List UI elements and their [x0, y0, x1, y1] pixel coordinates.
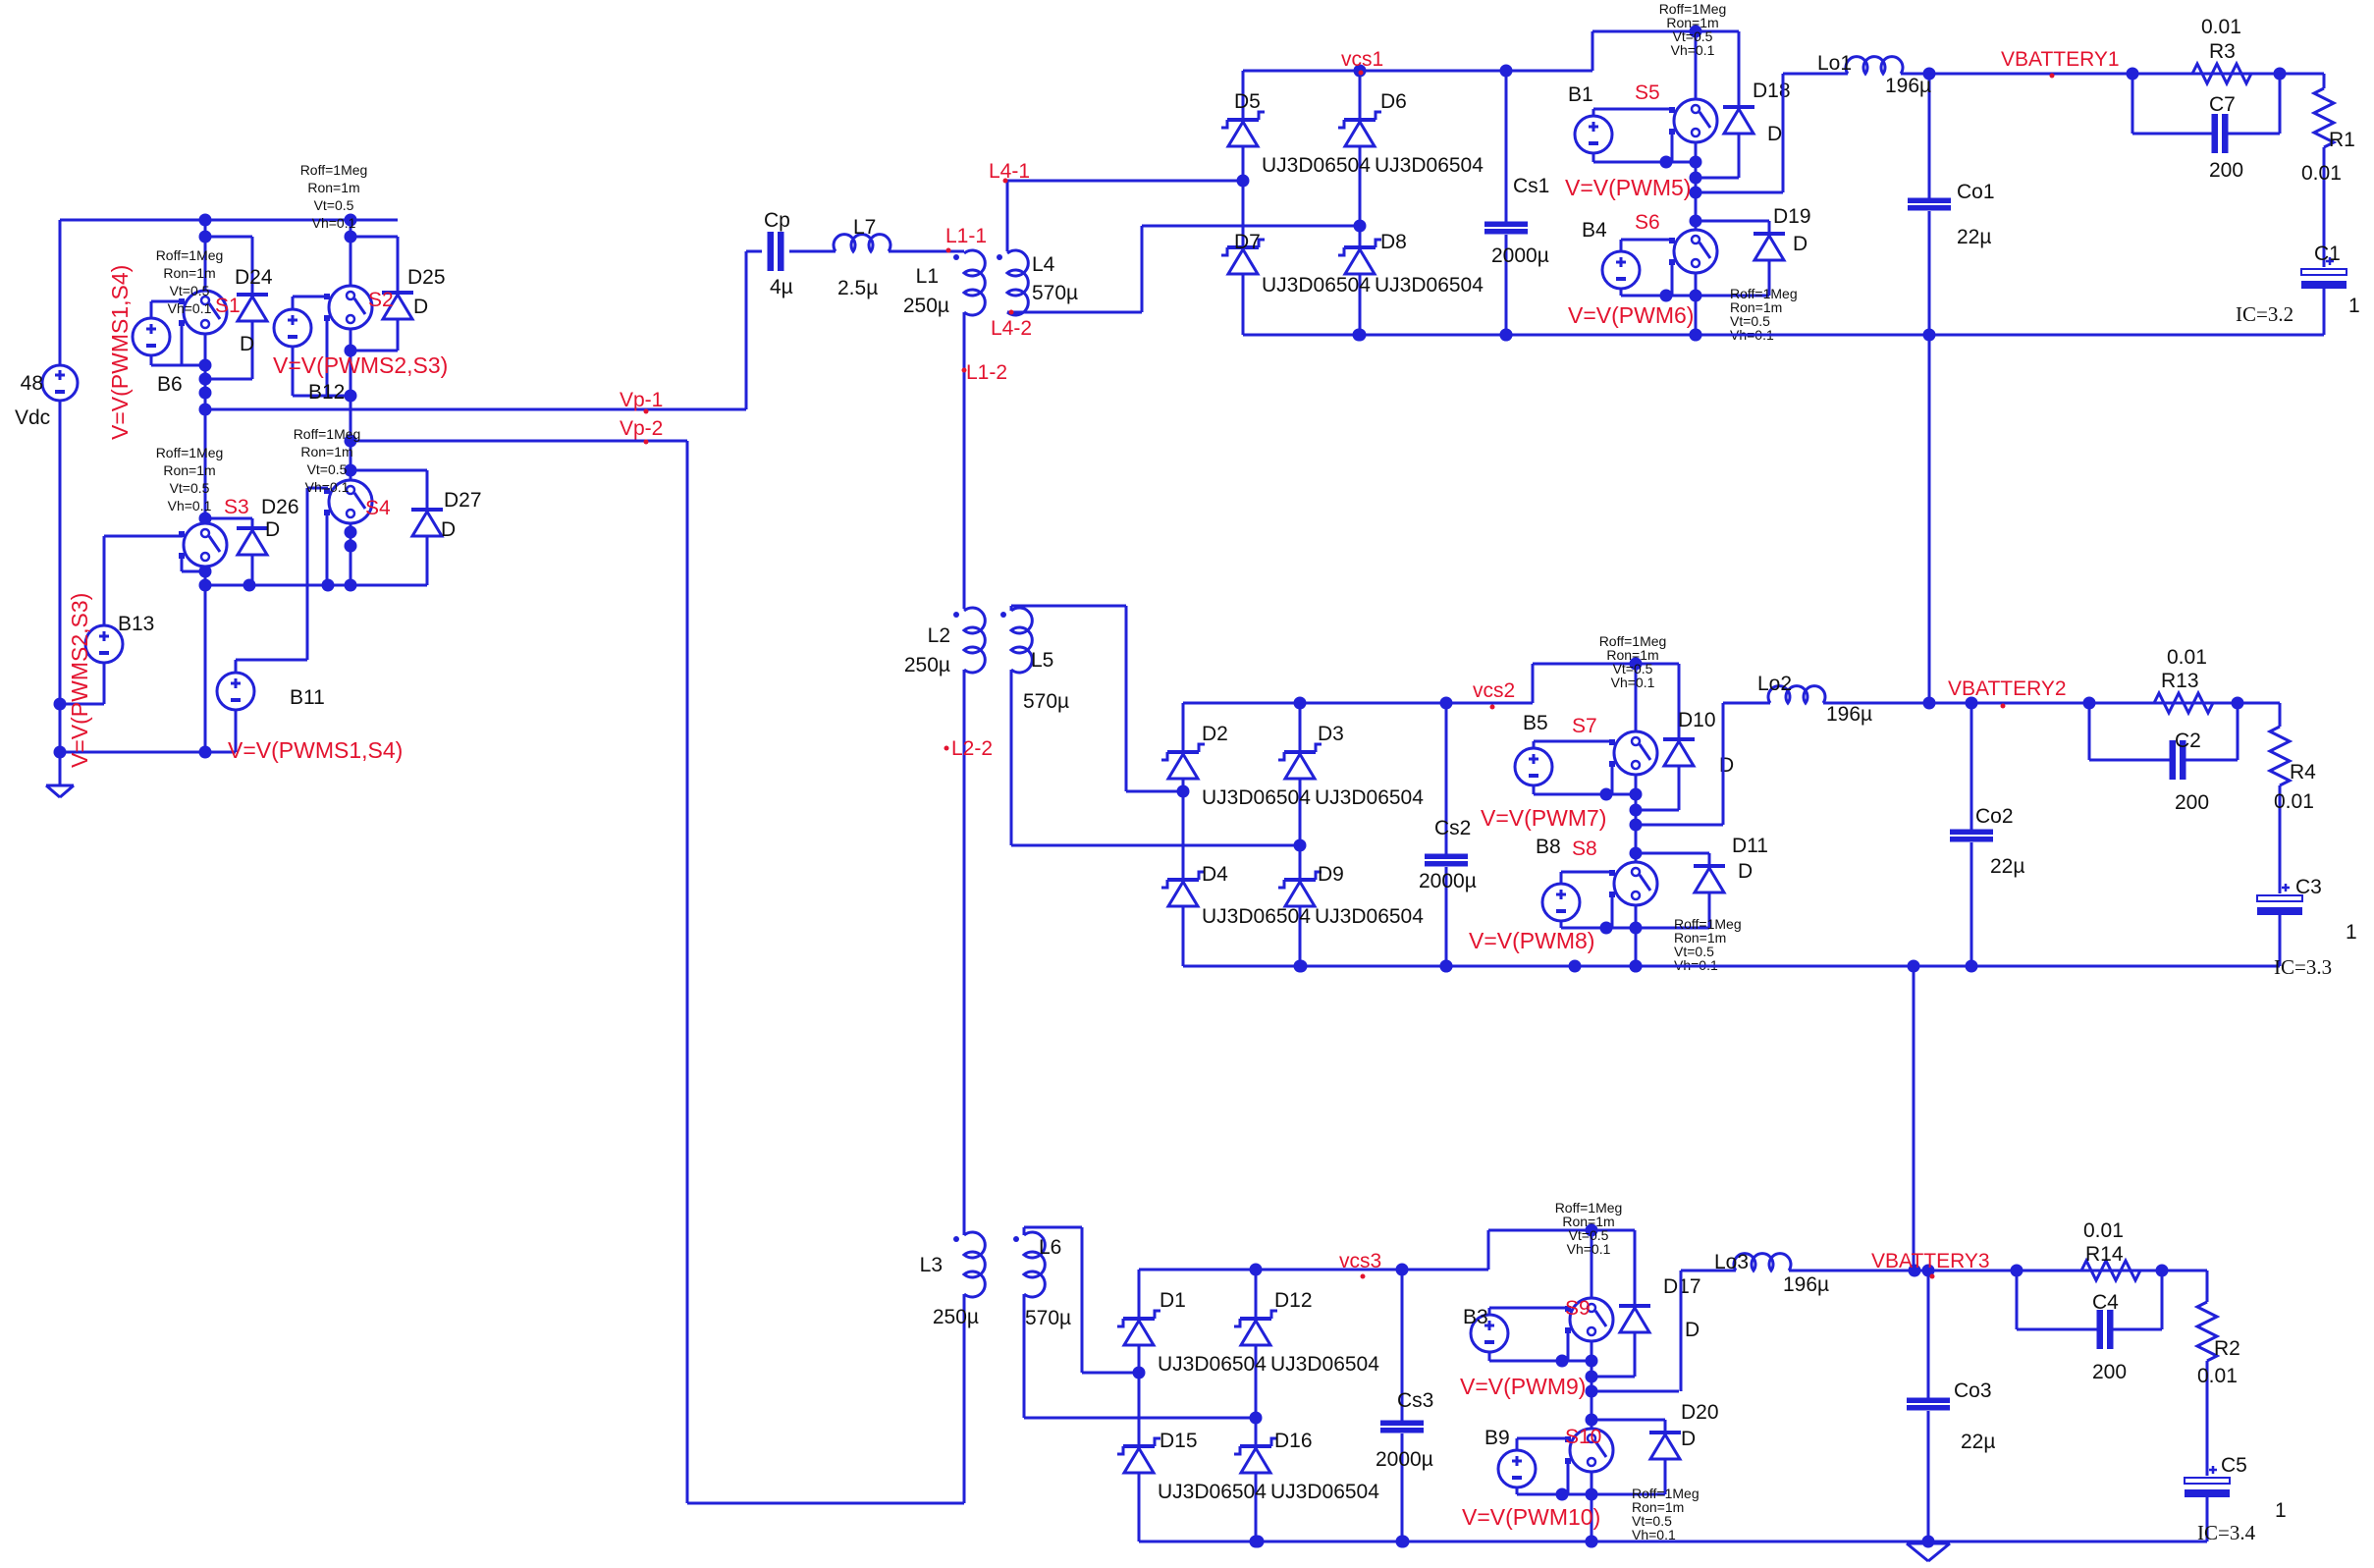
svg-text:D: D — [1719, 754, 1734, 777]
svg-text:2000µ: 2000µ — [1376, 1448, 1433, 1471]
svg-text:S6: S6 — [1635, 211, 1660, 234]
svg-text:0.01: 0.01 — [2197, 1365, 2238, 1387]
svg-text:Vdc: Vdc — [15, 406, 50, 429]
svg-text:Vh=0.1: Vh=0.1 — [312, 215, 356, 231]
svg-text:200: 200 — [2175, 791, 2209, 814]
svg-text:Vt=0.5: Vt=0.5 — [307, 461, 348, 477]
svg-text:C2: C2 — [2175, 730, 2201, 752]
svg-text:C3: C3 — [2295, 876, 2322, 898]
svg-text:R14: R14 — [2085, 1243, 2124, 1266]
svg-text:B9: B9 — [1484, 1427, 1510, 1449]
svg-text:B12: B12 — [308, 381, 345, 404]
svg-text:22µ: 22µ — [1961, 1431, 1995, 1453]
svg-text:200: 200 — [2092, 1361, 2127, 1383]
svg-text:IC=3.4: IC=3.4 — [2197, 1521, 2256, 1544]
svg-text:Vt=0.5: Vt=0.5 — [170, 480, 210, 496]
svg-text:250µ: 250µ — [904, 654, 950, 676]
svg-text:Ron=1m: Ron=1m — [163, 265, 215, 281]
svg-text:Vp-1: Vp-1 — [620, 389, 663, 411]
svg-text:0.01: 0.01 — [2274, 790, 2314, 813]
svg-text:Lo1: Lo1 — [1817, 52, 1852, 75]
svg-text:D26: D26 — [261, 496, 299, 518]
svg-text:D16: D16 — [1274, 1430, 1313, 1452]
svg-text:B4: B4 — [1582, 219, 1607, 242]
svg-text:B3: B3 — [1463, 1306, 1488, 1328]
svg-text:D12: D12 — [1274, 1289, 1313, 1312]
svg-text:D11: D11 — [1732, 835, 1768, 857]
svg-text:D: D — [441, 518, 456, 541]
svg-text:R13: R13 — [2161, 670, 2199, 692]
svg-text:570µ: 570µ — [1032, 282, 1078, 304]
svg-text:V=V(PWM10): V=V(PWM10) — [1462, 1504, 1600, 1530]
svg-text:L7: L7 — [853, 216, 876, 239]
svg-text:R3: R3 — [2209, 40, 2236, 63]
svg-text:4µ: 4µ — [770, 276, 793, 298]
svg-text:C4: C4 — [2092, 1291, 2119, 1314]
svg-text:D6: D6 — [1380, 90, 1407, 113]
svg-text:Vt=0.5: Vt=0.5 — [314, 197, 354, 213]
svg-text:UJ3D06504: UJ3D06504 — [1270, 1353, 1379, 1376]
svg-text:vcs2: vcs2 — [1473, 679, 1515, 702]
svg-text:V=V(PWM7): V=V(PWM7) — [1481, 805, 1606, 831]
svg-text:UJ3D06504: UJ3D06504 — [1270, 1481, 1379, 1503]
svg-text:R4: R4 — [2290, 761, 2316, 784]
svg-text:Vh=0.1: Vh=0.1 — [168, 300, 212, 316]
svg-text:Co1: Co1 — [1957, 181, 1995, 203]
svg-text:B6: B6 — [157, 373, 183, 396]
svg-text:B11: B11 — [290, 686, 325, 709]
svg-text:Co2: Co2 — [1975, 805, 2014, 828]
svg-text:Co3: Co3 — [1954, 1379, 1992, 1402]
svg-text:D: D — [413, 296, 428, 318]
svg-text:S2: S2 — [368, 289, 394, 311]
svg-text:D: D — [1681, 1428, 1696, 1450]
svg-text:Cs3: Cs3 — [1397, 1389, 1433, 1412]
svg-text:S8: S8 — [1572, 838, 1597, 860]
svg-text:Roff=1Meg: Roff=1Meg — [156, 247, 224, 263]
svg-text:B1: B1 — [1568, 83, 1593, 106]
svg-text:L3: L3 — [920, 1254, 943, 1276]
svg-text:V=V(PWMS2,S3): V=V(PWMS2,S3) — [67, 593, 92, 768]
svg-text:vcs1: vcs1 — [1341, 48, 1383, 71]
svg-text:D: D — [265, 518, 280, 541]
svg-text:D10: D10 — [1678, 709, 1716, 731]
svg-text:Roff=1Meg: Roff=1Meg — [294, 426, 361, 442]
svg-text:UJ3D06504: UJ3D06504 — [1315, 786, 1424, 809]
svg-text:1: 1 — [2348, 295, 2360, 317]
svg-text:D7: D7 — [1234, 231, 1261, 253]
svg-text:vcs3: vcs3 — [1339, 1250, 1381, 1272]
svg-text:D18: D18 — [1753, 80, 1791, 102]
svg-text:D3: D3 — [1318, 723, 1344, 745]
svg-text:D8: D8 — [1380, 231, 1407, 253]
svg-text:S5: S5 — [1635, 81, 1660, 104]
svg-text:196µ: 196µ — [1885, 75, 1931, 97]
svg-text:L6: L6 — [1039, 1236, 1061, 1259]
svg-text:D4: D4 — [1202, 863, 1228, 886]
svg-text:VBATTERY2: VBATTERY2 — [1948, 677, 2067, 700]
svg-text:UJ3D06504: UJ3D06504 — [1375, 274, 1484, 297]
svg-text:D24: D24 — [235, 266, 273, 289]
svg-text:Ron=1m: Ron=1m — [307, 180, 359, 195]
svg-text:B8: B8 — [1536, 836, 1561, 858]
svg-text:V=V(PWM8): V=V(PWM8) — [1469, 928, 1594, 953]
svg-text:200: 200 — [2209, 159, 2243, 182]
svg-text:Cs2: Cs2 — [1434, 817, 1471, 839]
svg-text:UJ3D06504: UJ3D06504 — [1375, 154, 1484, 177]
svg-text:V=V(PWMS1,S4): V=V(PWMS1,S4) — [228, 737, 403, 763]
svg-text:L2-2: L2-2 — [951, 737, 993, 760]
svg-text:Lo2: Lo2 — [1757, 673, 1792, 695]
svg-text:L4: L4 — [1032, 253, 1055, 276]
svg-text:2000µ: 2000µ — [1491, 244, 1549, 267]
svg-text:D: D — [1767, 123, 1782, 145]
svg-text:570µ: 570µ — [1023, 690, 1069, 713]
svg-text:L1-1: L1-1 — [945, 225, 987, 247]
svg-text:VBATTERY1: VBATTERY1 — [2001, 48, 2120, 71]
svg-text:Lo3: Lo3 — [1714, 1251, 1749, 1273]
svg-text:L1: L1 — [916, 265, 939, 288]
svg-text:D25: D25 — [407, 266, 446, 289]
svg-text:D: D — [240, 333, 254, 355]
svg-text:1: 1 — [2275, 1499, 2287, 1522]
svg-text:0.01: 0.01 — [2083, 1219, 2124, 1242]
svg-text:L2: L2 — [928, 624, 950, 647]
svg-text:Vh=0.1: Vh=0.1 — [168, 498, 212, 514]
svg-text:250µ: 250µ — [933, 1306, 979, 1328]
svg-text:UJ3D06504: UJ3D06504 — [1158, 1481, 1267, 1503]
svg-text:Vh=0.1: Vh=0.1 — [1671, 42, 1715, 58]
svg-text:UJ3D06504: UJ3D06504 — [1158, 1353, 1267, 1376]
svg-text:2000µ: 2000µ — [1419, 870, 1477, 892]
svg-text:C7: C7 — [2209, 93, 2236, 116]
svg-text:Vp-2: Vp-2 — [620, 417, 663, 440]
svg-text:0.01: 0.01 — [2201, 16, 2241, 38]
svg-text:UJ3D06504: UJ3D06504 — [1262, 154, 1371, 177]
svg-text:UJ3D06504: UJ3D06504 — [1315, 905, 1424, 928]
svg-text:22µ: 22µ — [1990, 855, 2024, 878]
svg-text:Cp: Cp — [764, 209, 790, 232]
svg-text:C1: C1 — [2314, 243, 2341, 265]
svg-text:IC=3.3: IC=3.3 — [2274, 955, 2332, 979]
svg-text:D2: D2 — [1202, 723, 1228, 745]
svg-text:Ron=1m: Ron=1m — [163, 462, 215, 478]
svg-text:UJ3D06504: UJ3D06504 — [1262, 274, 1371, 297]
svg-text:0.01: 0.01 — [2301, 162, 2342, 185]
svg-text:L5: L5 — [1031, 649, 1053, 672]
svg-text:UJ3D06504: UJ3D06504 — [1202, 786, 1311, 809]
svg-text:IC=3.2: IC=3.2 — [2236, 302, 2293, 326]
svg-text:V=V(PWMS2,S3): V=V(PWMS2,S3) — [273, 352, 448, 378]
svg-text:D: D — [1685, 1319, 1700, 1341]
svg-text:Vh=0.1: Vh=0.1 — [1567, 1241, 1611, 1257]
svg-text:S9: S9 — [1565, 1297, 1591, 1320]
svg-text:R1: R1 — [2329, 129, 2355, 151]
svg-text:Cs1: Cs1 — [1513, 175, 1549, 197]
svg-text:196µ: 196µ — [1826, 703, 1872, 726]
svg-text:Ron=1m: Ron=1m — [300, 444, 352, 460]
svg-text:D20: D20 — [1681, 1401, 1719, 1424]
svg-text:V=V(PWM9): V=V(PWM9) — [1460, 1374, 1586, 1399]
svg-text:L4-2: L4-2 — [991, 317, 1032, 340]
svg-text:V=V(PWM6): V=V(PWM6) — [1568, 302, 1694, 328]
svg-text:R2: R2 — [2214, 1337, 2240, 1360]
svg-text:C5: C5 — [2221, 1454, 2247, 1477]
svg-text:L4-1: L4-1 — [989, 160, 1030, 183]
svg-text:D1: D1 — [1160, 1289, 1186, 1312]
svg-text:VBATTERY3: VBATTERY3 — [1871, 1250, 1990, 1272]
svg-text:V=V(PWM5): V=V(PWM5) — [1565, 175, 1691, 200]
svg-text:2.5µ: 2.5µ — [837, 277, 878, 299]
svg-text:570µ: 570µ — [1025, 1307, 1071, 1329]
svg-text:250µ: 250µ — [903, 295, 949, 317]
svg-text:B5: B5 — [1523, 712, 1548, 734]
svg-text:Vh=0.1: Vh=0.1 — [1611, 675, 1655, 690]
svg-text:Vt=0.5: Vt=0.5 — [170, 283, 210, 298]
svg-text:0.01: 0.01 — [2167, 646, 2207, 669]
svg-text:D19: D19 — [1773, 205, 1811, 228]
svg-text:D9: D9 — [1318, 863, 1344, 886]
svg-text:D5: D5 — [1234, 90, 1261, 113]
svg-text:S3: S3 — [224, 496, 249, 518]
svg-text:B13: B13 — [118, 613, 154, 635]
svg-text:D15: D15 — [1160, 1430, 1198, 1452]
svg-text:1: 1 — [2346, 921, 2357, 944]
svg-text:D: D — [1793, 233, 1807, 255]
svg-text:Roff=1Meg: Roff=1Meg — [300, 162, 368, 178]
svg-text:UJ3D06504: UJ3D06504 — [1202, 905, 1311, 928]
svg-text:S7: S7 — [1572, 715, 1597, 737]
svg-text:Roff=1Meg: Roff=1Meg — [156, 445, 224, 460]
svg-text:S4: S4 — [365, 497, 391, 519]
svg-text:D27: D27 — [444, 489, 482, 512]
svg-text:L1-2: L1-2 — [966, 361, 1007, 384]
svg-text:D: D — [1738, 860, 1753, 883]
svg-text:S10: S10 — [1565, 1426, 1601, 1448]
svg-text:Vh=0.1: Vh=0.1 — [305, 479, 350, 495]
svg-text:48: 48 — [21, 372, 43, 395]
svg-text:S1: S1 — [215, 295, 241, 317]
svg-text:196µ: 196µ — [1783, 1273, 1829, 1296]
svg-text:22µ: 22µ — [1957, 226, 1991, 248]
svg-text:V=V(PWMS1,S4): V=V(PWMS1,S4) — [107, 265, 133, 440]
